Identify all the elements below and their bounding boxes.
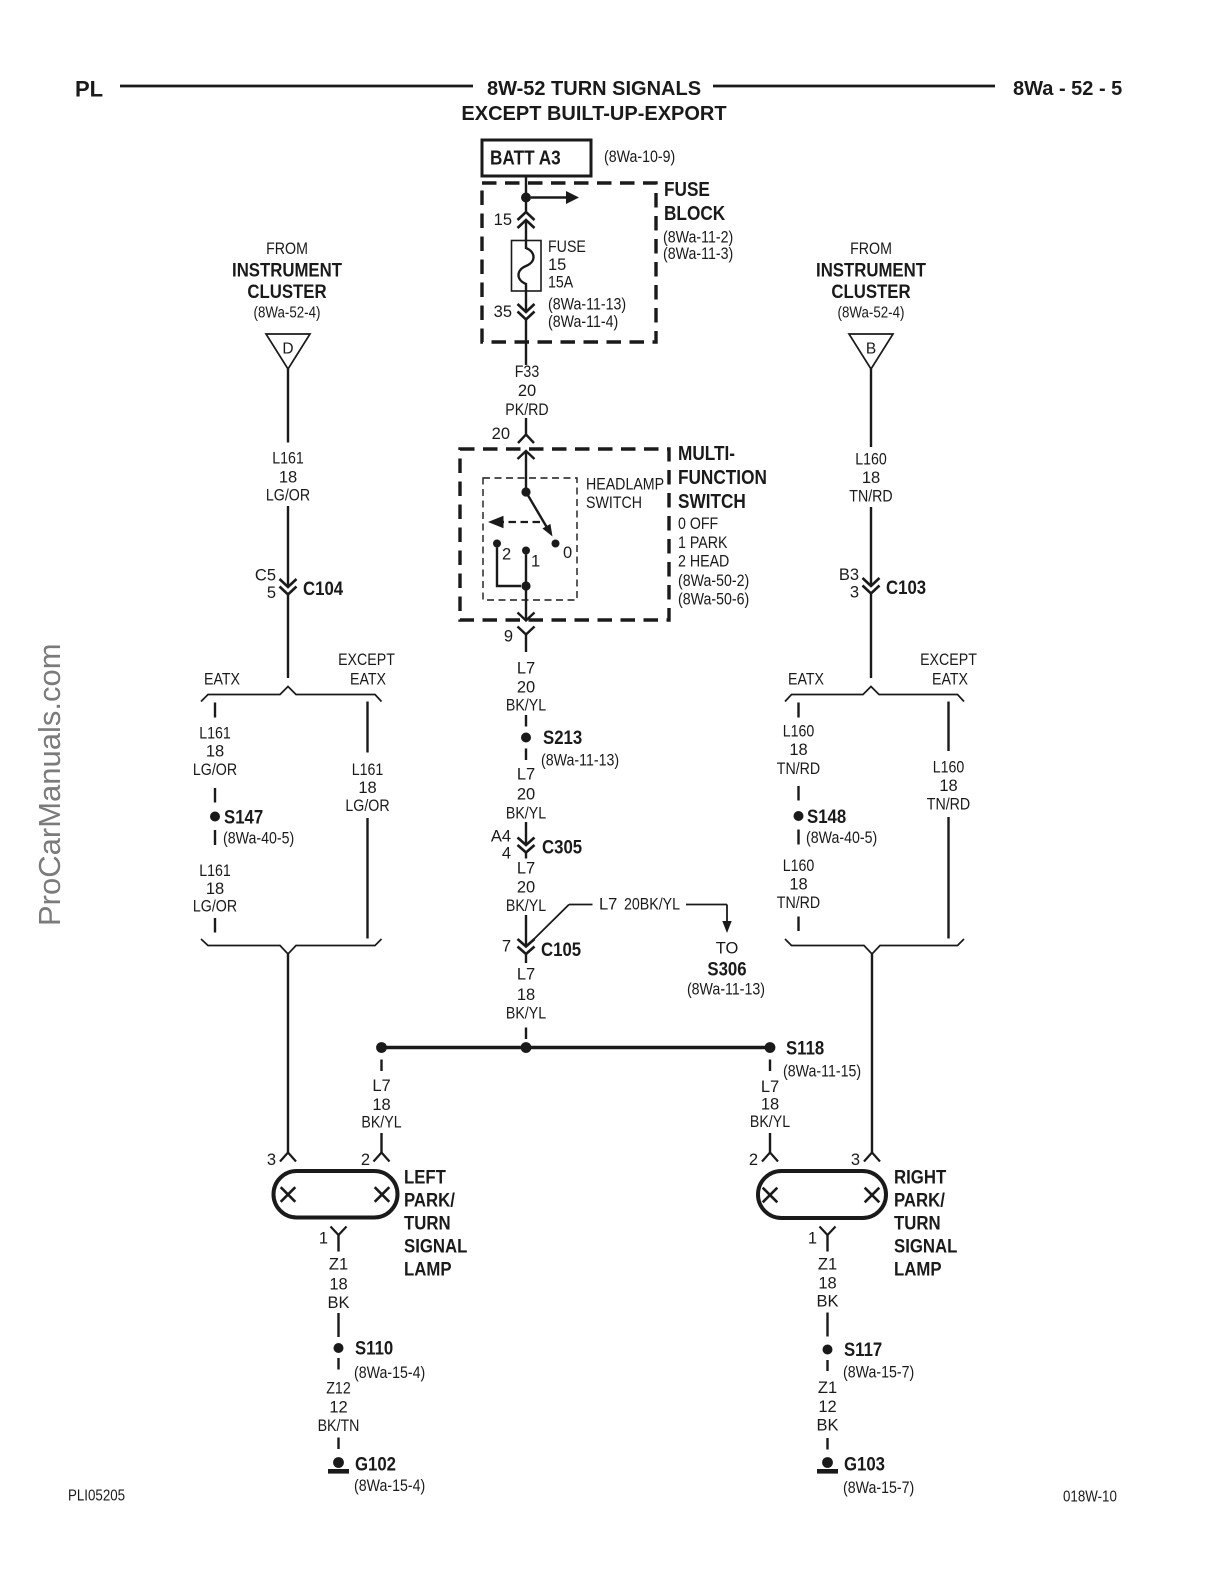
svg-text:LG/OR: LG/OR (193, 761, 237, 779)
svg-text:4: 4 (502, 845, 511, 863)
svg-text:TO: TO (716, 940, 739, 958)
svg-text:BK/TN: BK/TN (318, 1417, 360, 1435)
svg-text:CLUSTER: CLUSTER (247, 281, 326, 303)
svg-text:EATX: EATX (350, 671, 386, 689)
svg-text:2: 2 (749, 1151, 758, 1169)
svg-text:Z1: Z1 (818, 1379, 837, 1397)
splice S118 (765, 1038, 862, 1081)
wire eatx branch stub (214, 703, 216, 718)
label FUSE BLOCK (663, 179, 733, 263)
svg-text:TN/RD: TN/RD (849, 488, 892, 506)
label EXCEPT EATX left (338, 651, 395, 689)
svg-text:Z12: Z12 (326, 1380, 351, 1398)
net label Z1 18 BK left (327, 1256, 349, 1313)
svg-text:INSTRUMENT: INSTRUMENT (232, 260, 342, 282)
connector pin 35 (494, 303, 535, 321)
wire C103 to split (870, 594, 872, 679)
svg-text:0: 0 (563, 544, 572, 562)
svg-text:EATX: EATX (788, 671, 824, 689)
svg-text:EATX: EATX (204, 671, 240, 689)
wire stub (214, 918, 216, 933)
connector C104 pin C5/5 (255, 567, 343, 603)
arrow feed to other circuits (531, 191, 579, 204)
label FROM INSTRUMENT CLUSTER right (816, 240, 926, 322)
svg-text:TURN: TURN (404, 1213, 451, 1235)
wire left bus drop stub (380, 1060, 382, 1072)
svg-text:1: 1 (319, 1230, 328, 1248)
net label L160 18 TN/RD (849, 451, 892, 506)
svg-text:20: 20 (517, 786, 535, 804)
net label L7 18 BK/YL right drop (750, 1078, 790, 1131)
label TO S306 (687, 940, 765, 999)
svg-text:BK: BK (816, 1417, 838, 1435)
svg-text:8Wa - 52 - 5: 8Wa - 52 - 5 (1013, 78, 1122, 100)
svg-text:1: 1 (808, 1230, 817, 1248)
switch common node (521, 487, 530, 496)
svg-text:1: 1 (531, 553, 540, 571)
svg-text:TN/RD: TN/RD (777, 894, 820, 912)
connector pin 20 (492, 418, 534, 443)
svg-text:ProCarManuals.com: ProCarManuals.com (32, 643, 67, 926)
net label Z1 18 BK right (816, 1256, 838, 1311)
svg-text:BK/YL: BK/YL (506, 697, 546, 715)
wire to C305 (525, 822, 527, 845)
svg-text:3: 3 (850, 584, 859, 602)
svg-text:LG/OR: LG/OR (193, 898, 237, 916)
svg-text:L7: L7 (517, 860, 535, 878)
svg-text:SIGNAL: SIGNAL (894, 1236, 957, 1258)
split brace left module (201, 687, 382, 702)
wire stub (826, 1360, 828, 1371)
wire to left lamp pin 2 (380, 1133, 382, 1153)
svg-text:BK/YL: BK/YL (361, 1114, 401, 1132)
wire pin15 to fuse (525, 220, 527, 249)
ground G102 (328, 1454, 425, 1496)
svg-text:12: 12 (818, 1398, 836, 1416)
wire stub (525, 715, 527, 727)
wire to C104 (287, 506, 289, 587)
wire except-eatx branch lower (366, 818, 368, 939)
svg-text:FROM: FROM (850, 240, 892, 258)
wire stub (214, 830, 216, 845)
net label L161 18 LG/OR eatx lower (193, 862, 237, 916)
label FROM INSTRUMENT CLUSTER left (232, 240, 342, 322)
svg-text:L7: L7 (761, 1078, 779, 1096)
wire to C103 (870, 507, 872, 586)
net label Z12 12 BK/TN (318, 1380, 360, 1436)
wire merge to lamp pin 3 right (871, 954, 873, 1153)
svg-text:35: 35 (494, 303, 512, 321)
svg-text:2 HEAD: 2 HEAD (678, 553, 729, 571)
svg-text:(8Wa-11-15): (8Wa-11-15) (783, 1063, 861, 1081)
label HEADLAMP SWITCH (586, 476, 664, 513)
svg-text:L7: L7 (372, 1077, 390, 1095)
left lamp pin 3 (267, 1151, 296, 1169)
net label L160 18 TN/RD eatx lower (777, 857, 820, 912)
wire S118 drop stub (769, 1060, 771, 1072)
wire stub (797, 786, 799, 801)
svg-text:(8Wa-15-7): (8Wa-15-7) (843, 1364, 914, 1382)
net label Z1 12 BK (816, 1379, 838, 1435)
switch blade (526, 492, 553, 537)
wire eatx branch stub right (797, 703, 799, 718)
svg-text:B: B (866, 341, 876, 358)
svg-text:S213: S213 (543, 727, 582, 749)
svg-text:15A: 15A (548, 274, 573, 292)
connector pin 9 (504, 627, 535, 653)
svg-text:PL: PL (75, 77, 103, 102)
multi-function switch box (460, 449, 669, 620)
svg-text:L161: L161 (199, 862, 231, 880)
svg-text:L160: L160 (783, 857, 815, 875)
connector C105 pin 7 (502, 938, 581, 964)
svg-text:S117: S117 (844, 1339, 882, 1361)
svg-text:18: 18 (789, 741, 807, 759)
svg-text:(8Wa-15-4): (8Wa-15-4) (354, 1477, 425, 1495)
net label L7 20 BK/YL (506, 660, 546, 715)
wire to S117 (826, 1313, 828, 1337)
contact 0 (552, 540, 573, 563)
net label L7 20 BK/YL (506, 860, 546, 916)
left lamp pin 2 (361, 1151, 390, 1169)
svg-text:S110: S110 (355, 1338, 393, 1360)
net label L161 18 LG/OR eatx (193, 725, 237, 780)
wire except-eatx branch lower right (947, 817, 949, 939)
svg-text:(8Wa-52-4): (8Wa-52-4) (838, 305, 905, 322)
header rule left (120, 85, 473, 88)
svg-text:SWITCH: SWITCH (678, 491, 746, 513)
svg-text:C103: C103 (886, 577, 926, 599)
svg-text:(8Wa-10-9): (8Wa-10-9) (604, 148, 675, 166)
svg-text:(8Wa-50-2): (8Wa-50-2) (678, 572, 749, 590)
svg-text:B3: B3 (839, 566, 859, 584)
wire stub (214, 788, 216, 803)
svg-text:EXCEPT: EXCEPT (338, 651, 395, 669)
wire stub (525, 749, 527, 761)
svg-text:EATX: EATX (932, 671, 968, 689)
svg-text:C5: C5 (255, 567, 276, 585)
branch wire to S306 (528, 896, 732, 946)
label EXCEPT EATX right (920, 651, 977, 689)
svg-text:L7: L7 (599, 896, 617, 914)
svg-text:(8Wa-40-5): (8Wa-40-5) (223, 830, 294, 848)
splice S117 (823, 1339, 915, 1382)
battery feed box BATT A3 (482, 140, 591, 176)
net label F33 20 PK/RD (505, 363, 548, 419)
label MULTI-FUNCTION SWITCH (678, 443, 767, 609)
wire stub (337, 1438, 339, 1450)
svg-text:Z1: Z1 (329, 1256, 348, 1274)
svg-text:3: 3 (267, 1151, 276, 1169)
svg-text:18: 18 (372, 1096, 390, 1114)
svg-text:SWITCH: SWITCH (586, 494, 642, 512)
svg-text:LAMP: LAMP (404, 1259, 452, 1281)
right lamp pin 2 (749, 1151, 778, 1169)
svg-text:L160: L160 (855, 451, 887, 469)
svg-text:LAMP: LAMP (894, 1259, 942, 1281)
svg-text:5: 5 (267, 584, 276, 602)
switch output node (521, 581, 530, 590)
off-page connector B (849, 334, 893, 369)
merge brace left module (201, 939, 382, 954)
svg-text:A4: A4 (491, 828, 511, 846)
svg-text:20: 20 (517, 679, 535, 697)
switch output arrow (518, 586, 535, 621)
left park/turn signal lamp (274, 1171, 398, 1218)
svg-text:TN/RD: TN/RD (927, 796, 970, 814)
svg-text:20: 20 (517, 879, 535, 897)
left lamp pin 1 (319, 1227, 347, 1252)
svg-text:(8Wa-11-3): (8Wa-11-3) (663, 245, 733, 263)
svg-text:18: 18 (862, 469, 880, 487)
contact 1 (522, 547, 540, 571)
wire to right lamp pin 2 (769, 1133, 771, 1153)
svg-text:(8Wa-11-13): (8Wa-11-13) (687, 981, 765, 999)
svg-text:BK/YL: BK/YL (750, 1113, 790, 1131)
bus junction left (376, 1042, 387, 1053)
wire stub (337, 1358, 339, 1370)
svg-text:F33: F33 (515, 363, 540, 381)
svg-text:G103: G103 (844, 1454, 885, 1476)
svg-text:PLI05205: PLI05205 (68, 1488, 125, 1505)
svg-text:0 OFF: 0 OFF (678, 515, 718, 533)
svg-text:18: 18 (761, 1096, 779, 1114)
svg-text:(8Wa-50-6): (8Wa-50-6) (678, 591, 749, 609)
bus wire L7 (382, 1046, 771, 1049)
svg-text:8W-52 TURN SIGNALS: 8W-52 TURN SIGNALS (487, 78, 701, 100)
svg-text:(8Wa-15-4): (8Wa-15-4) (354, 1364, 425, 1382)
svg-text:18: 18 (358, 779, 376, 797)
svg-text:Z1: Z1 (818, 1256, 837, 1274)
svg-text:FUNCTION: FUNCTION (678, 467, 767, 489)
svg-text:L7: L7 (517, 966, 535, 984)
svg-text:L161: L161 (199, 725, 231, 743)
wire except-eatx branch right (947, 702, 949, 752)
bus junction center (521, 1042, 532, 1053)
svg-text:(8Wa-11-4): (8Wa-11-4) (548, 313, 618, 331)
svg-text:S118: S118 (786, 1038, 824, 1060)
svg-text:20BK/YL: 20BK/YL (624, 896, 680, 914)
svg-text:S306: S306 (707, 959, 746, 981)
svg-text:L160: L160 (783, 723, 815, 741)
splice S148 (794, 806, 878, 847)
header rule right (713, 85, 995, 88)
splice S110 (334, 1338, 426, 1383)
wire stub (797, 830, 799, 845)
svg-text:FUSE: FUSE (548, 238, 586, 256)
svg-text:(8Wa-52-4): (8Wa-52-4) (254, 305, 321, 322)
wire C104 to split (287, 595, 289, 679)
junction node in fuse block (521, 193, 531, 203)
svg-text:HEADLAMP: HEADLAMP (586, 476, 664, 494)
wire stub (525, 1028, 527, 1040)
svg-text:18: 18 (206, 880, 224, 898)
svg-text:C105: C105 (541, 939, 581, 961)
svg-text:D: D (282, 341, 293, 358)
svg-text:2: 2 (502, 546, 511, 564)
ground G103 (817, 1454, 914, 1498)
svg-text:(8Wa-40-5): (8Wa-40-5) (806, 829, 877, 847)
off-page connector D (266, 334, 310, 369)
wire contact 1 to output (525, 555, 527, 587)
wire to S110 (337, 1313, 339, 1337)
net label L160 18 TN/RD eatx (777, 723, 820, 779)
svg-text:9: 9 (504, 628, 513, 646)
svg-text:(8Wa-11-13): (8Wa-11-13) (548, 296, 626, 314)
svg-text:L161: L161 (272, 450, 304, 468)
wire to C105 (525, 915, 527, 947)
wire from B (870, 369, 872, 447)
split brace right module (785, 687, 964, 702)
svg-text:LEFT: LEFT (404, 1167, 446, 1189)
svg-text:12: 12 (329, 1399, 347, 1417)
svg-text:BK/YL: BK/YL (506, 1005, 546, 1023)
switch input arrow (518, 451, 535, 492)
svg-text:L161: L161 (352, 761, 384, 779)
svg-text:18: 18 (206, 743, 224, 761)
label RIGHT PARK/TURN SIGNAL LAMP (894, 1167, 957, 1281)
headlamp switch box (483, 478, 577, 600)
svg-text:PK/RD: PK/RD (505, 401, 548, 419)
svg-text:(8Wa-15-7): (8Wa-15-7) (843, 1479, 914, 1497)
svg-text:TN/RD: TN/RD (777, 760, 820, 778)
splice S147 (210, 807, 294, 848)
svg-text:20: 20 (518, 382, 536, 400)
connector C103 pin B3/3 (839, 566, 926, 602)
svg-text:3: 3 (851, 1151, 860, 1169)
svg-text:L7: L7 (517, 766, 535, 784)
svg-text:FUSE: FUSE (664, 179, 710, 201)
svg-text:C104: C104 (303, 578, 343, 600)
svg-text:INSTRUMENT: INSTRUMENT (816, 260, 926, 282)
svg-text:LG/OR: LG/OR (345, 797, 389, 815)
fuse value labels (548, 238, 626, 331)
svg-text:20: 20 (492, 425, 510, 443)
svg-text:FROM: FROM (266, 240, 308, 258)
svg-text:18: 18 (279, 469, 297, 487)
svg-text:BK/YL: BK/YL (506, 897, 546, 915)
wire battery to node (525, 176, 527, 212)
net label L160 18 TN/RD except (927, 759, 970, 814)
svg-text:SIGNAL: SIGNAL (404, 1236, 467, 1258)
net label L7 18 BK/YL (506, 966, 546, 1023)
svg-text:2: 2 (361, 1151, 370, 1169)
svg-text:(8Wa-11-2): (8Wa-11-2) (663, 229, 733, 247)
svg-text:MULTI-: MULTI- (678, 443, 735, 465)
svg-text:RIGHT: RIGHT (894, 1167, 946, 1189)
net label L7 20 BK/YL (506, 766, 546, 823)
svg-text:BK/YL: BK/YL (506, 805, 546, 823)
wire from D (287, 369, 289, 443)
svg-text:18: 18 (789, 876, 807, 894)
label LEFT PARK/TURN SIGNAL LAMP (404, 1167, 467, 1281)
svg-text:1 PARK: 1 PARK (678, 534, 727, 552)
svg-text:CLUSTER: CLUSTER (831, 281, 910, 303)
right lamp pin 1 (808, 1227, 836, 1252)
svg-text:BLOCK: BLOCK (664, 203, 726, 225)
svg-text:L160: L160 (933, 759, 965, 777)
fuse F15 15A (512, 241, 542, 292)
fuse block box (482, 183, 656, 342)
net label L7 18 BK/YL left drop (361, 1077, 401, 1132)
svg-text:EXCEPT BUILT-UP-EXPORT: EXCEPT BUILT-UP-EXPORT (461, 103, 726, 125)
movement arrow (488, 516, 540, 528)
svg-text:BK: BK (816, 1293, 838, 1311)
wire fuse block out (525, 291, 527, 312)
wire contact 2 to output (497, 548, 521, 587)
svg-text:S147: S147 (224, 807, 263, 829)
svg-text:18: 18 (517, 986, 535, 1004)
wire stub (797, 917, 799, 932)
svg-text:PARK/: PARK/ (404, 1190, 455, 1212)
connector C305 pin A4/4 (491, 828, 582, 863)
svg-text:EXCEPT: EXCEPT (920, 651, 977, 669)
merge brace right module (785, 939, 964, 954)
svg-text:C305: C305 (542, 837, 582, 859)
svg-text:7: 7 (502, 938, 511, 956)
splice S213 (521, 727, 619, 770)
svg-text:15: 15 (494, 211, 512, 229)
net label L161 18 LG/OR except (345, 761, 389, 815)
contact 2 (493, 540, 511, 564)
svg-text:S148: S148 (807, 806, 846, 828)
svg-text:BATT A3: BATT A3 (490, 148, 561, 170)
svg-text:18: 18 (939, 777, 957, 795)
svg-text:18: 18 (818, 1275, 836, 1293)
svg-text:18: 18 (329, 1276, 347, 1294)
wire stub (826, 1438, 828, 1450)
svg-text:15: 15 (548, 256, 566, 274)
right park/turn signal lamp (758, 1171, 886, 1218)
svg-text:L7: L7 (517, 660, 535, 678)
svg-text:018W-10: 018W-10 (1063, 1489, 1117, 1506)
connector pin 15 (494, 211, 535, 229)
svg-text:TURN: TURN (894, 1213, 941, 1235)
svg-text:(8Wa-11-13): (8Wa-11-13) (541, 752, 619, 770)
svg-text:PARK/: PARK/ (894, 1190, 945, 1212)
svg-text:BK: BK (327, 1294, 349, 1312)
net label L161 18 LG/OR (266, 450, 310, 505)
wire except-eatx branch (366, 702, 368, 753)
svg-text:LG/OR: LG/OR (266, 487, 310, 505)
wire merge to lamp pin 3 (287, 954, 289, 1153)
svg-text:G102: G102 (355, 1454, 396, 1476)
right lamp pin 3 (851, 1151, 880, 1169)
